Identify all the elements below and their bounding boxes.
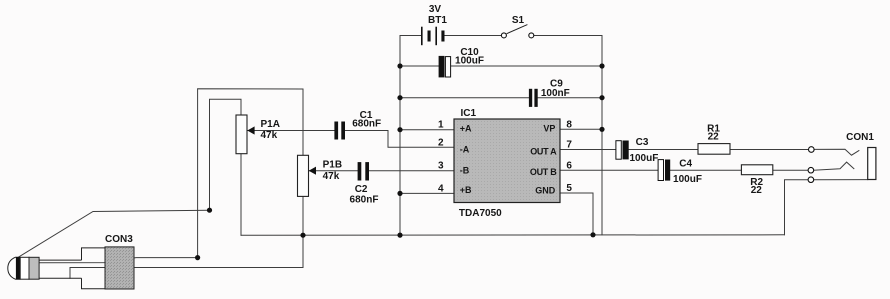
svg-text:VP: VP bbox=[543, 123, 555, 133]
wire: P1B bottom through ground rail to sleeve bbox=[302, 196, 304, 267]
capacitor C10 bbox=[439, 56, 451, 78]
CON1 contact circle 2 bbox=[808, 167, 814, 173]
wire: left vertical rail x=400 bbox=[399, 36, 401, 236]
svg-text:GND: GND bbox=[535, 185, 556, 195]
wire: OUT A pin7 to C3 bbox=[560, 149, 616, 151]
CON3 ring gray band bbox=[29, 257, 39, 279]
wire: R2 to CON1 contact 2 bbox=[773, 169, 808, 171]
svg-text:P1A: P1A bbox=[261, 119, 280, 130]
junction dot left rail pin4 bbox=[397, 191, 402, 196]
wire: CON1 tip feed and spring contact 1 bbox=[814, 149, 859, 155]
junction dot P1B bottom at ground rail bbox=[300, 233, 305, 238]
CON3 barrel bbox=[39, 260, 81, 278]
CON3 tip cap bbox=[8, 257, 20, 279]
CON3 tip black band bbox=[16, 257, 20, 279]
battery BT1 bbox=[422, 27, 445, 46]
svg-text:22: 22 bbox=[708, 132, 720, 143]
svg-text:C3: C3 bbox=[636, 137, 649, 148]
connector CON1 jack socket body bbox=[868, 148, 876, 180]
wire: C9 row left bbox=[400, 97, 529, 99]
junction dot left rail C9 bbox=[397, 95, 402, 100]
capacitor C9 bbox=[529, 89, 538, 107]
CON3 white band bbox=[20, 257, 29, 279]
wire: inner box tip net to P1A top bbox=[210, 99, 242, 210]
wire: right vertical rail x=602 bbox=[601, 36, 603, 235]
svg-text:100uF: 100uF bbox=[455, 55, 484, 66]
potentiometer P1A bbox=[236, 115, 255, 154]
svg-text:-B: -B bbox=[460, 165, 470, 175]
wire: R1 to CON1 contact 1 bbox=[730, 149, 809, 151]
svg-text:+A: +A bbox=[460, 124, 472, 134]
svg-text:6: 6 bbox=[566, 160, 572, 171]
svg-text:BT1: BT1 bbox=[428, 15, 447, 26]
wire: CON1 ring feed and spring contact 2 bbox=[814, 162, 854, 170]
wire: OUT B pin6 to C4 bbox=[560, 169, 658, 171]
op-amp IC1 TDA7050 body bbox=[454, 119, 560, 203]
wire: C4 to R2 bbox=[670, 169, 741, 171]
switch S1 bbox=[501, 25, 533, 38]
svg-text:100uF: 100uF bbox=[629, 153, 658, 164]
junction dot GND at ground rail bbox=[590, 232, 595, 237]
resistor R2 bbox=[741, 165, 772, 175]
junction dot right rail C10 bbox=[599, 63, 604, 68]
svg-text:3: 3 bbox=[438, 161, 444, 172]
svg-text:680nF: 680nF bbox=[352, 118, 381, 129]
svg-text:CON3: CON3 bbox=[105, 234, 133, 245]
wire: switch to right rail corner bbox=[534, 35, 602, 37]
svg-text:IC1: IC1 bbox=[461, 108, 477, 119]
svg-text:+B: +B bbox=[460, 185, 472, 195]
wire: CON1 sleeve line to bottom rail bbox=[814, 179, 868, 181]
junction dot left rail C10 bbox=[397, 63, 402, 68]
wire: C10 row left bbox=[400, 65, 439, 67]
wire: VP pin8 to right rail bbox=[560, 128, 602, 130]
wire: outer box ring net to P1B top bbox=[198, 89, 303, 258]
capacitor C4 bbox=[658, 160, 670, 181]
junction dot right rail VP bbox=[599, 127, 604, 132]
wire: CON3 tip diagonal lead bbox=[17, 210, 210, 258]
CON3 body outline bbox=[82, 248, 106, 289]
svg-text:C2: C2 bbox=[355, 184, 368, 195]
svg-text:CON1: CON1 bbox=[846, 132, 874, 143]
svg-text:P1B: P1B bbox=[323, 160, 342, 171]
svg-text:3V: 3V bbox=[429, 4, 442, 15]
svg-text:680nF: 680nF bbox=[350, 194, 379, 205]
potentiometer P1B bbox=[298, 155, 317, 196]
svg-text:1: 1 bbox=[438, 120, 444, 131]
wire: P1A bottom to ground rail bbox=[240, 154, 242, 236]
svg-text:5: 5 bbox=[566, 183, 572, 194]
wire: CON3 sleeve lead bbox=[70, 268, 303, 279]
svg-text:OUT B: OUT B bbox=[530, 167, 557, 177]
capacitor C2 bbox=[358, 162, 369, 180]
resistor R1 bbox=[698, 144, 730, 155]
wire: pin1 to left rail bbox=[400, 129, 454, 131]
svg-text:7: 7 bbox=[566, 140, 572, 151]
wire: C2 to pin3 bbox=[369, 170, 454, 172]
wire: C10 row right bbox=[451, 65, 602, 67]
wire: P1B wiper to C2 bbox=[309, 170, 358, 172]
svg-text:8: 8 bbox=[566, 119, 572, 130]
svg-text:TDA7050: TDA7050 bbox=[459, 208, 502, 219]
svg-text:-A: -A bbox=[460, 145, 470, 155]
svg-text:100uF: 100uF bbox=[673, 174, 702, 185]
wire: CON3 ring lead bbox=[39, 258, 198, 263]
wire: bottom ground rail bbox=[241, 234, 785, 237]
svg-text:100nF: 100nF bbox=[541, 88, 570, 99]
wire: GND pin5 down to bottom rail bbox=[560, 193, 593, 235]
wire: C3 to R1 bbox=[629, 149, 698, 151]
capacitor C3 bbox=[616, 141, 629, 160]
svg-text:47k: 47k bbox=[261, 130, 278, 141]
svg-text:47k: 47k bbox=[323, 171, 340, 182]
svg-text:S1: S1 bbox=[512, 15, 525, 26]
svg-text:2: 2 bbox=[438, 137, 444, 148]
capacitor C1 bbox=[334, 122, 345, 140]
junction dot left rail pin1 bbox=[397, 127, 402, 132]
svg-text:4: 4 bbox=[438, 183, 444, 194]
CON1 contact circle 1 bbox=[809, 147, 815, 153]
junction dot tip net bbox=[207, 208, 212, 213]
wire: pin4 to left rail bbox=[400, 192, 454, 194]
junction dot left rail bottom bbox=[397, 233, 402, 238]
junction dot ring net bbox=[195, 255, 200, 260]
wire: CON1 sleeve left segment down riser bbox=[785, 180, 809, 235]
junction dot right rail C9 bbox=[599, 95, 604, 100]
wire: battery to switch bbox=[445, 35, 502, 37]
connector CON3 jack plug bbox=[8, 247, 134, 289]
svg-text:OUT A: OUT A bbox=[530, 146, 557, 156]
svg-text:22: 22 bbox=[751, 185, 763, 196]
wire: P1A wiper to C1 bbox=[248, 130, 335, 132]
CON3 hatched block bbox=[105, 247, 134, 289]
wire: C9 row right bbox=[538, 97, 602, 99]
wire: top rail battery left segment bbox=[400, 35, 422, 37]
wire: C1 to pin2 jog bbox=[345, 131, 454, 148]
CON1 contact circle 3 bbox=[808, 177, 814, 183]
svg-text:C4: C4 bbox=[679, 159, 692, 170]
